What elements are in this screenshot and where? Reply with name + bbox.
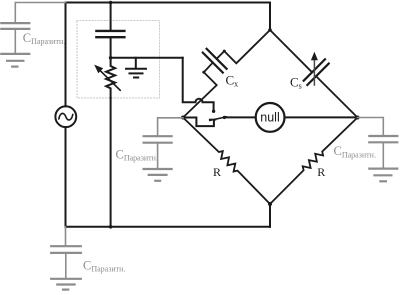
- svg-text:CПаразитн.: CПаразитн.: [23, 31, 65, 46]
- dotted box (Wagner arm enclosure): [77, 21, 160, 99]
- ground (parasitic 1): [1, 54, 29, 67]
- wire: parasitic cap 1 to ground: [14, 29, 16, 54]
- wire: Wagner switch feed (down, right with hop, down to contact): [183, 58, 214, 110]
- node: switch upper contact (open): [212, 110, 215, 113]
- svg-text:CПаразитн.: CПаразитн.: [116, 147, 158, 162]
- switch common L-path from left vertex: [183, 118, 214, 127]
- capacitor C parasitic 4 (bottom): [51, 246, 81, 253]
- node: right vertex: [356, 116, 360, 120]
- wire: switch pivot to null detector: [224, 116, 255, 118]
- null detector ND1: [256, 103, 285, 132]
- wire: parasitic cap 2 to ground: [157, 143, 159, 169]
- ground (parasitic 3): [369, 169, 397, 182]
- node: Wagner junction: [109, 56, 113, 60]
- arrow of variable resistor RW: [94, 65, 120, 91]
- wire: Wagner junction horizontal run to switch drop: [111, 57, 183, 59]
- svg-text:null: null: [260, 111, 279, 125]
- wire: parasitic cap 3 to ground: [382, 142, 384, 168]
- svg-text:Cs: Cs: [290, 75, 302, 91]
- bridge arm: upper-right wire top vertex to Cs: [270, 30, 312, 72]
- bridge arm: wire Cs to right vertex: [316, 76, 357, 117]
- bridge arm: lower-left with resistor R: [183, 118, 270, 205]
- bridge arm: upper wire from Cx to top vertex with jog: [217, 30, 270, 63]
- capacitor C (Wagner arm, in dotted box): [96, 31, 124, 37]
- switch lever: [210, 117, 227, 121]
- wire: parasitic cap 4 to ground: [65, 253, 67, 279]
- wire: Wagner arm lower run to bottom bus: [110, 98, 112, 227]
- wire: bottom horizontal bus: [66, 226, 271, 228]
- wire: Wagner capacitor to junction: [110, 37, 112, 58]
- capacitor Cx plates: [203, 49, 227, 73]
- capacitor Cs plates: [304, 59, 329, 85]
- node: top bus junction to Wagner arm: [109, 1, 113, 5]
- wire: Wagner ground stem: [135, 58, 137, 69]
- svg-text:R: R: [317, 165, 325, 179]
- svg-text:CПаразитн.: CПаразитн.: [334, 144, 376, 159]
- bridge arm: lower-right with resistor R: [270, 118, 358, 205]
- ground (parasitic 4): [51, 279, 81, 290]
- wire: Wagner arm from top bus to capacitor: [110, 3, 112, 31]
- bridge arm: upper-left wire with jogs to Cx: [183, 63, 217, 118]
- node: switch pivot: [223, 116, 226, 119]
- wire: gray lead left vertex to parasitic cap 2: [158, 118, 183, 136]
- wire: gray lead top bus to parasitic cap 1: [15, 3, 65, 24]
- capacitor C parasitic 1 (top-left): [1, 23, 29, 29]
- variable resistor RW (Wagner arm): [106, 58, 115, 98]
- capacitor C parasitic 3 (right): [369, 136, 397, 142]
- node: bottom vertex: [268, 202, 272, 206]
- svg-text:R: R: [213, 165, 221, 179]
- ground (Wagner earth): [126, 69, 146, 78]
- wire: null detector to right vertex: [285, 116, 358, 118]
- switch contact tick: [210, 119, 216, 121]
- wire: top horizontal black bus: [66, 2, 271, 4]
- AC source V1: [55, 106, 76, 127]
- wire: gray lead right vertex to parasitic cap 3: [358, 118, 384, 137]
- svg-text:Cx: Cx: [226, 73, 239, 89]
- wire: top-right drop to bridge top vertex: [269, 3, 271, 31]
- node: top vertex: [268, 28, 272, 32]
- wire: gray lead bottom bus to parasitic cap 4: [65, 227, 67, 246]
- capacitor C parasitic 2 (mid): [144, 136, 172, 143]
- wire: bottom vertex drop: [269, 204, 271, 227]
- node: Cx upper jog corner: [223, 50, 226, 53]
- node: left vertex: [181, 116, 185, 120]
- node: bottom bus junction: [109, 225, 113, 229]
- ground (parasitic 2): [144, 169, 172, 181]
- svg-text:CПаразитн.: CПаразитн.: [83, 258, 125, 273]
- arrow of variable capacitor Cs: [311, 52, 318, 85]
- wire: left branch upper (top bus to AC source): [65, 3, 67, 107]
- node: Cx lower jog corner: [202, 71, 205, 74]
- wire: left branch lower (AC source to bottom bus): [65, 127, 67, 227]
